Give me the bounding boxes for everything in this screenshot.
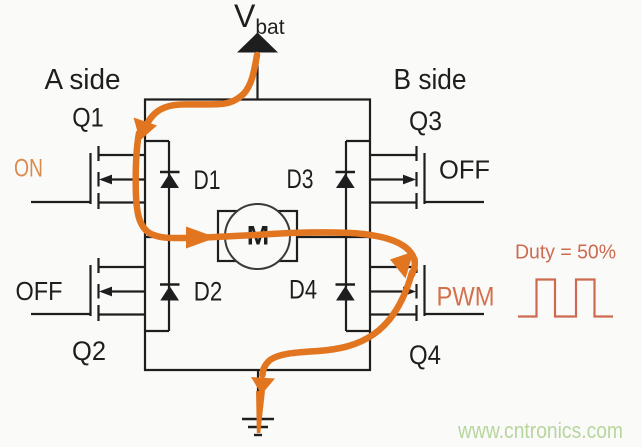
svg-text:PWM: PWM	[437, 282, 495, 312]
transistor Q4	[369, 258, 484, 321]
svg-text:OFF: OFF	[16, 276, 63, 306]
label OFF Q3	[439, 155, 490, 185]
wire bottom rail	[144, 369, 371, 371]
svg-text:www.cntronics.com: www.cntronics.com	[457, 418, 623, 443]
transistor Q3	[369, 146, 484, 209]
svg-text:D2: D2	[194, 277, 223, 307]
wire Vbat stub	[256, 50, 258, 100]
label D3	[287, 164, 314, 194]
label D4	[289, 275, 317, 305]
wire ground stub	[257, 370, 259, 419]
current flow arrow from Vbat to Q1	[134, 55, 258, 141]
watermark	[457, 418, 623, 443]
svg-text:A side: A side	[45, 64, 121, 96]
label PWM	[437, 282, 495, 312]
wire right rail	[369, 99, 371, 372]
label Q1	[72, 103, 104, 133]
svg-text:ON: ON	[14, 155, 43, 183]
motor M	[218, 204, 297, 269]
pwm waveform	[518, 280, 613, 317]
label A side	[45, 64, 121, 96]
svg-text:D4: D4	[289, 275, 317, 305]
svg-text:B side: B side	[394, 64, 467, 96]
label D2	[194, 277, 223, 307]
diode D3	[336, 141, 371, 237]
current flow arrow through Q1 to motor	[136, 133, 217, 249]
svg-text:D3: D3	[287, 164, 314, 194]
svg-text:Q3: Q3	[409, 106, 442, 136]
wire motor right	[296, 236, 370, 238]
label B side	[394, 64, 467, 96]
transistor Q2	[31, 258, 146, 321]
label ON	[14, 155, 43, 183]
svg-text:Q1: Q1	[72, 103, 104, 133]
label OFF Q2	[16, 276, 63, 306]
wire motor left	[145, 236, 219, 238]
net label Vbat	[234, 0, 285, 39]
ground	[242, 419, 274, 435]
power symbol Vbat arrow	[237, 33, 278, 53]
current flow arrow from Q4 to ground	[251, 273, 412, 434]
svg-text:D1: D1	[194, 165, 221, 195]
label Q4	[409, 340, 441, 370]
svg-text:Duty = 50%: Duty = 50%	[515, 242, 616, 264]
label Q3	[409, 106, 442, 136]
diode D1	[145, 141, 180, 237]
wire left rail	[144, 99, 146, 372]
label D1	[194, 165, 221, 195]
svg-text:Q2: Q2	[72, 336, 106, 366]
current flow arrow through motor to Q4	[205, 232, 415, 278]
wire top rail	[144, 98, 371, 100]
diode D2	[145, 237, 180, 331]
diode D4	[336, 237, 371, 331]
transistor Q1	[31, 146, 146, 209]
label Q2	[72, 336, 106, 366]
svg-text:OFF: OFF	[439, 155, 490, 185]
label Duty = 50%	[515, 242, 616, 264]
svg-text:Q4: Q4	[409, 340, 441, 370]
